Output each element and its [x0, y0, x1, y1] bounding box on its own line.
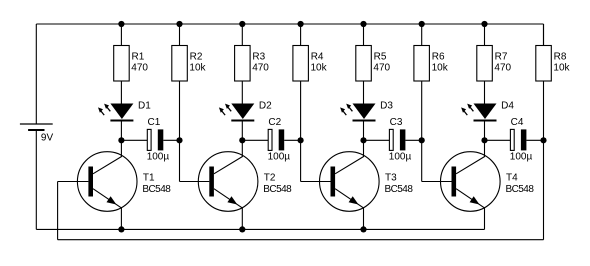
- svg-text:BC548: BC548: [506, 184, 535, 195]
- svg-text:100µ: 100µ: [268, 151, 291, 162]
- svg-text:BC548: BC548: [385, 184, 414, 195]
- svg-text:100µ: 100µ: [510, 151, 533, 162]
- svg-text:470: 470: [494, 63, 511, 74]
- svg-text:470: 470: [373, 63, 390, 74]
- svg-text:9V: 9V: [41, 132, 54, 143]
- svg-text:100µ: 100µ: [147, 151, 170, 162]
- svg-text:D3: D3: [380, 101, 393, 112]
- svg-text:R5: R5: [374, 52, 387, 63]
- svg-text:R1: R1: [132, 52, 145, 63]
- svg-text:T1: T1: [143, 172, 155, 183]
- svg-text:BC548: BC548: [263, 184, 292, 195]
- svg-text:100µ: 100µ: [389, 151, 412, 162]
- svg-text:R2: R2: [190, 52, 203, 63]
- svg-text:R3: R3: [252, 52, 265, 63]
- svg-text:D4: D4: [501, 101, 514, 112]
- svg-text:C1: C1: [148, 117, 161, 128]
- svg-text:470: 470: [252, 63, 269, 74]
- svg-text:D1: D1: [138, 101, 151, 112]
- svg-text:C2: C2: [268, 117, 281, 128]
- svg-text:10k: 10k: [553, 63, 570, 74]
- svg-text:R7: R7: [495, 52, 508, 63]
- svg-text:T4: T4: [506, 172, 518, 183]
- svg-text:470: 470: [131, 63, 148, 74]
- svg-text:R6: R6: [432, 52, 445, 63]
- svg-text:10k: 10k: [311, 63, 328, 74]
- svg-text:C4: C4: [511, 117, 524, 128]
- svg-text:BC548: BC548: [142, 184, 171, 195]
- svg-text:10k: 10k: [432, 63, 449, 74]
- svg-text:10k: 10k: [189, 63, 206, 74]
- svg-text:D2: D2: [259, 101, 272, 112]
- svg-text:R4: R4: [311, 52, 324, 63]
- svg-text:T3: T3: [385, 172, 397, 183]
- svg-text:T2: T2: [264, 172, 276, 183]
- svg-text:C3: C3: [390, 117, 403, 128]
- svg-text:R8: R8: [554, 52, 567, 63]
